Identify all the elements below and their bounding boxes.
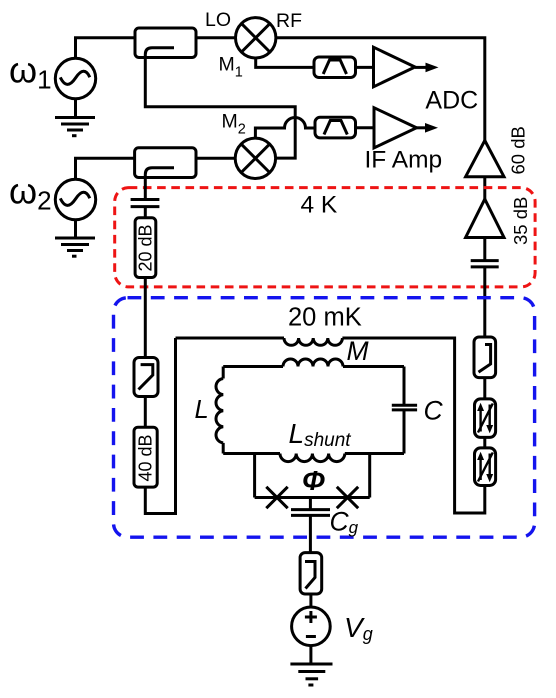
arrow to ADC (chain 2) [417,123,439,133]
wire mixer1 RF to right line [275,38,485,141]
label M [347,336,370,366]
wire DC1 coupled port to mixer2 RF [145,58,295,159]
capacitor (output line) [471,261,499,267]
capacitor Cg [291,498,330,553]
svg-text:LO: LO [205,9,231,31]
label ADC [425,86,478,114]
source W2 [55,179,95,219]
label RF [276,10,302,32]
label L_shunt [289,418,352,451]
low-pass filter (right line) [474,337,496,378]
svg-text:M1: M1 [219,54,243,81]
wire capacitor down to LPF right [483,267,486,337]
amplifier 60 dB [466,141,504,177]
wire W2 to coupler2 [76,158,135,179]
coupling feedline with coupling inductor [176,338,485,513]
wire 35dB to capacitor [483,238,486,261]
label C [424,395,444,425]
ground under W1 [55,99,95,136]
svg-text:40 dB: 40 dB [136,434,156,481]
wire F1 to amp1 [356,66,374,69]
capacitor C (right side of tank) [392,367,417,454]
svg-text:35 dB: 35 dB [510,197,531,245]
svg-text:ADC: ADC [425,86,478,114]
amplifier A1 [374,47,416,87]
svg-text:Lshunt: Lshunt [289,418,352,451]
ground under W2 [55,220,95,257]
wire isolator1 to isolator2 [483,437,486,448]
bandpass filter F2 [315,117,356,138]
blue dashed box 20 mK [114,298,535,538]
svg-text:L: L [195,396,209,424]
svg-text:C: C [424,395,444,425]
wire mixer2 IF to filter2 with crossover hop [255,118,315,140]
wire LPF to 40 dB [144,397,147,428]
low-pass filter (gate line) [300,553,322,594]
inductor L (left side of tank) [216,367,223,454]
label IF Amp [365,147,443,174]
svg-text:ω1: ω1 [9,50,52,95]
Josephson junction X1 [266,487,287,508]
amplifier A2 (IF Amp) [374,108,417,148]
label 60 dB [508,126,529,174]
attenuator 40 dB [134,427,157,487]
svg-text:20 mK: 20 mK [288,304,362,332]
wire LPF to isolator1 [483,378,486,399]
SQUID loop legs [255,454,370,498]
wire W1 to coupler [76,38,136,59]
svg-text:Φ: Φ [302,465,325,496]
label L [195,396,209,424]
svg-text:IF Amp: IF Amp [365,147,443,174]
directional coupler DC1 [135,28,196,58]
Josephson junction X2 [337,487,358,508]
svg-text:M2: M2 [222,111,246,138]
input line: capacitor on left line [131,178,160,219]
label Vg [344,612,373,644]
label 4 K [301,192,338,219]
arrow to ADC (chain 1) [415,63,439,73]
attenuator 20 dB [135,218,156,278]
wire 60dB to 35dB [483,177,486,199]
amplifier 35 dB [466,199,504,237]
svg-text:Cg: Cg [330,507,359,538]
label omega2 [9,171,52,216]
svg-text:Vg: Vg [344,612,373,644]
SQUID bottom line [255,496,370,499]
wire 40dB to coupling line (up and over) [145,338,175,514]
mixer M1 [236,18,276,58]
isolator 1 [475,399,496,438]
label Cg [330,507,359,538]
bandpass filter F1 [314,57,356,78]
label M2 [222,111,246,138]
tank bottom line with L_shunt [223,454,404,462]
wire coupler1 to mixer1 LO [196,36,237,39]
label Phi [302,465,325,496]
ground (gate) [290,646,332,685]
svg-text:RF: RF [276,10,302,32]
svg-text:M: M [347,336,370,366]
voltage source Vg [292,607,331,646]
label 20 mK [288,304,362,332]
wire mixer1 IF to filter1 [256,57,314,67]
source W1 [55,58,95,98]
wire coupler2 to mixer2 LO [196,157,236,160]
svg-text:60 dB: 60 dB [508,126,529,174]
wire F2 to amp2 [356,126,375,129]
low-pass filter (left line) [134,358,158,397]
label M1 [219,54,243,81]
label LO [205,9,231,31]
wire LPF to Vg [309,594,312,607]
label 35 dB [510,197,531,245]
svg-text:20 dB: 20 dB [136,224,156,271]
mixer M2 [235,138,275,178]
svg-text:4 K: 4 K [301,192,338,219]
wire 20dB att down to LPF left [144,278,147,358]
red dashed box 4 K [115,188,535,287]
tank circuit top line with inductor [223,359,404,367]
svg-text:ω2: ω2 [9,171,52,216]
label omega1 [9,50,52,95]
directional coupler DC2 [135,148,196,178]
isolator 2 [475,448,496,486]
